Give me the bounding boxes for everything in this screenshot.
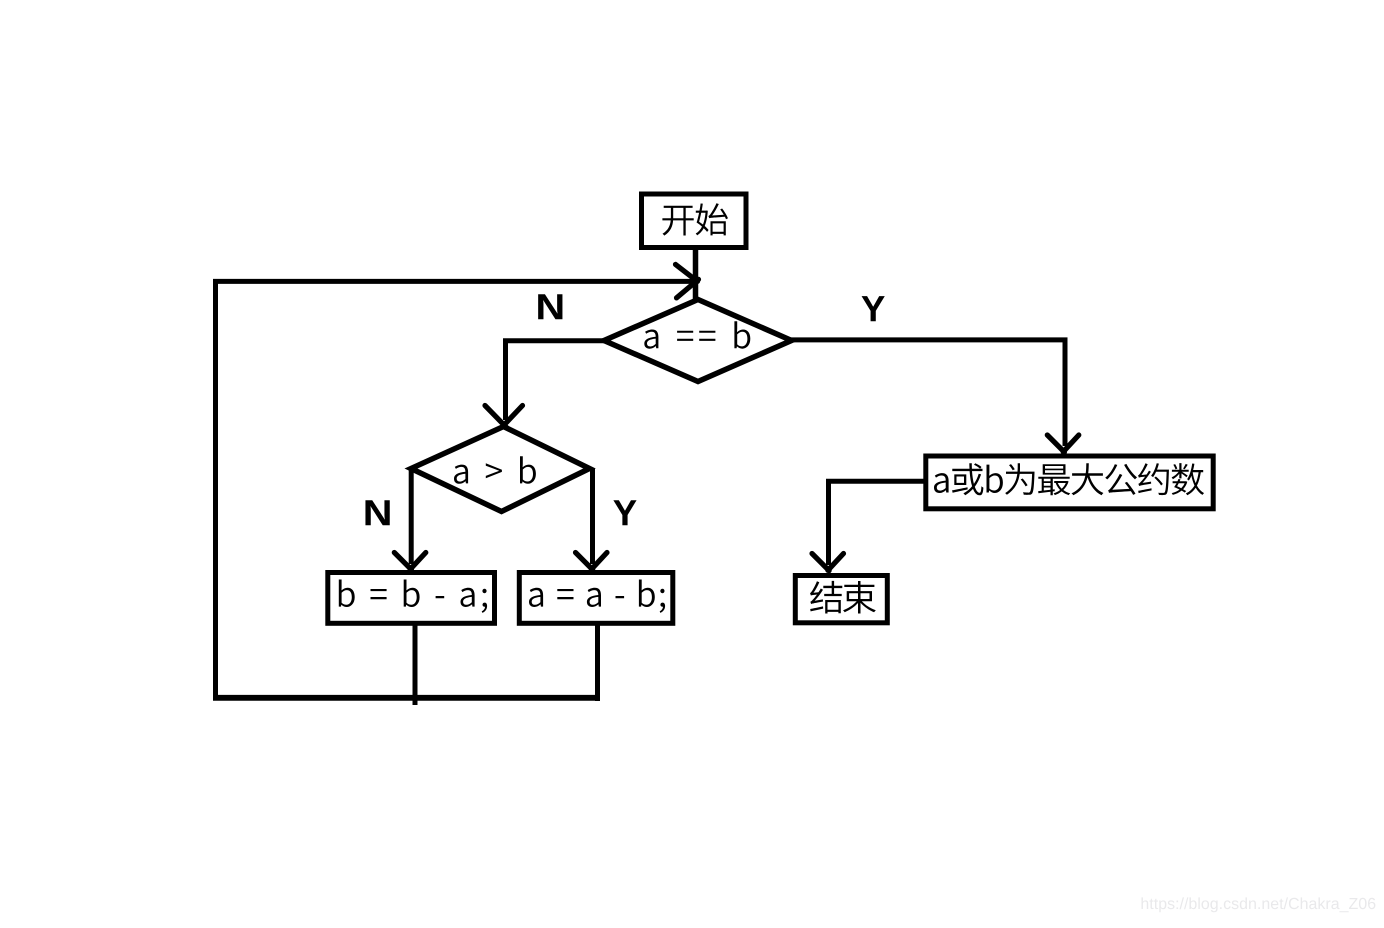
label N (diamond2) xyxy=(365,500,389,525)
text b = b - a; xyxy=(339,580,487,613)
wire: loop left/top/bottom (merge junction back up to diamond1 entry) xyxy=(216,281,695,700)
text a或b为最大公约数 xyxy=(934,463,1204,495)
wire: diamond2 N branch down to box b=b-a xyxy=(409,469,414,565)
node: end box 结束 xyxy=(795,576,887,623)
node: diamond1 a == b xyxy=(604,300,792,382)
arrowhead into box a=a-b (pointing down) xyxy=(576,553,593,570)
text a = a - b; xyxy=(529,580,665,613)
text a > b xyxy=(454,456,536,484)
arrowhead into end box (pointing down) xyxy=(812,554,829,571)
wire: below box a=a-b to loop bottom xyxy=(595,623,600,701)
label Y (diamond1) xyxy=(862,296,885,321)
wire: below box b=b-a to loop bottom xyxy=(413,623,418,705)
wire: start box to diamond1 xyxy=(693,248,699,303)
wire: diamond2 Y branch down to box a=a-b xyxy=(590,469,595,565)
node: box a = a - b; xyxy=(519,573,673,624)
arrowhead into diamond2 (pointing down) xyxy=(485,406,507,428)
node: result box a或b为最大公约数 xyxy=(926,456,1213,509)
arrowhead into diamond1 entry (pointing right) xyxy=(676,264,698,281)
wire: diamond1 N branch (left then down to diamond2) xyxy=(506,341,607,420)
arrowhead into result box (pointing down) xyxy=(1047,435,1064,452)
node: box b = b - a; xyxy=(328,573,495,624)
label Y (diamond2) xyxy=(613,500,636,525)
text 结束 xyxy=(810,581,876,614)
text a == b xyxy=(644,321,750,349)
node: diamond2 a > b xyxy=(411,427,590,512)
wire: diamond1 Y branch (right then down to result box) xyxy=(789,340,1065,446)
watermark url xyxy=(1142,897,1376,912)
label N (diamond1) xyxy=(538,294,562,319)
text 开始 xyxy=(662,203,728,235)
wire: loop bottom horizontal xyxy=(213,695,600,701)
wire: result box to end box (left then down) xyxy=(829,481,927,565)
node: start box 开始 xyxy=(642,194,747,248)
arrowhead into box b=b-a (pointing down) xyxy=(394,553,411,570)
